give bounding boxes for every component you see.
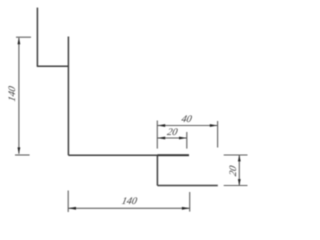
profile main vertical web xyxy=(67,37,69,156)
dim 140 bottom: extension left xyxy=(67,191,69,213)
svg-text:140: 140 xyxy=(121,196,138,207)
dim 40: dimension line xyxy=(157,125,217,127)
dim 20 right: dimension line xyxy=(238,155,240,186)
profile hook bottom horizontal xyxy=(157,185,217,187)
dim 20 horizontal: dimension line xyxy=(157,137,186,139)
dim 140 left: dimension line xyxy=(18,38,20,154)
profile top hook bottom horizontal xyxy=(37,65,69,67)
dim 40: extension right xyxy=(217,121,219,148)
dim 20 right: arrow up xyxy=(238,155,241,161)
profile hook down vertical xyxy=(156,155,158,185)
dim 20 right: extension top xyxy=(224,154,248,156)
dim 40: extension left shared xyxy=(156,121,158,149)
dim 140 bottom: arrow right xyxy=(182,207,190,210)
dim 20 horizontal: arrow left xyxy=(157,137,165,140)
dim 20 horizontal: extension right xyxy=(186,132,188,149)
profile bottom hem overlap xyxy=(157,154,189,156)
dim 20 horizontal: arrow right xyxy=(179,137,187,140)
dim 140 bottom: extension right xyxy=(189,192,191,212)
dim 140 left: extension bottom xyxy=(15,154,30,156)
profile main bottom leg xyxy=(68,154,189,156)
dim 20 right: arrow down xyxy=(238,179,241,185)
dim 140 bottom: dimension line xyxy=(68,207,190,209)
profile top hook left vertical xyxy=(36,8,38,67)
dim 140 left: arrow down xyxy=(18,147,21,153)
dim 40: arrow left xyxy=(157,124,165,127)
dim 20 right: extension bottom xyxy=(224,185,248,187)
dim 40: arrow right xyxy=(210,124,218,127)
dim 140 bottom: arrow left xyxy=(68,207,76,210)
dim 140 left: extension top xyxy=(16,36,31,38)
dim 140 left: arrow up xyxy=(18,38,21,44)
svg-text:140: 140 xyxy=(7,85,18,102)
